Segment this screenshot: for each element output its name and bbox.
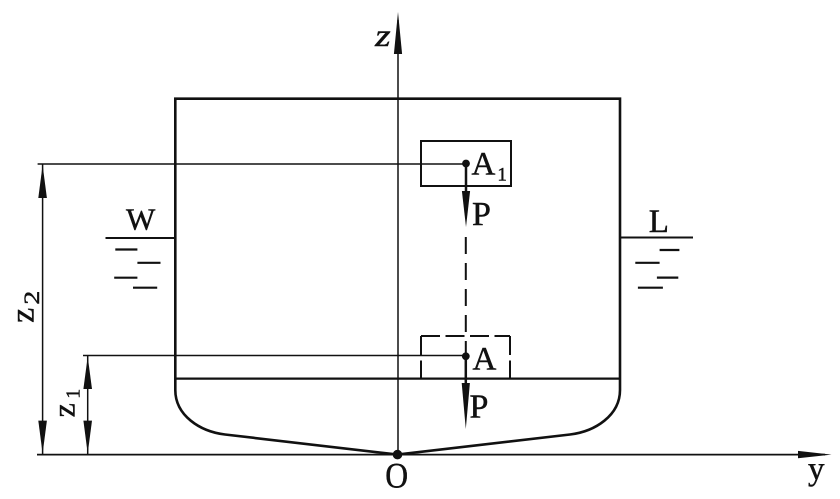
svg-text:z2: z2 bbox=[4, 291, 44, 323]
svg-text:W: W bbox=[126, 202, 156, 237]
waterline W bbox=[106, 237, 177, 239]
dimension z2 line bbox=[42, 164, 44, 455]
svg-text:O: O bbox=[385, 457, 408, 496]
svg-text:A1: A1 bbox=[472, 146, 507, 185]
z1 arrow up bbox=[83, 357, 92, 390]
svg-text:z: z bbox=[374, 17, 391, 53]
weight box A1 bbox=[421, 141, 511, 186]
z1 arrow down bbox=[83, 421, 92, 454]
y axis arrowhead bbox=[798, 451, 832, 458]
z2 arrow up bbox=[38, 165, 47, 198]
z axis arrowhead bbox=[394, 12, 402, 54]
extension line A1 level bbox=[38, 163, 466, 165]
inner bottom line bbox=[175, 378, 620, 380]
svg-text:y: y bbox=[808, 452, 825, 488]
W water marks bbox=[115, 248, 137, 250]
svg-text:P: P bbox=[470, 389, 489, 426]
dimension z1 line bbox=[87, 356, 89, 455]
svg-text:P: P bbox=[472, 196, 491, 233]
node O bbox=[393, 450, 403, 460]
node A bbox=[462, 352, 470, 360]
node A1 bbox=[462, 160, 470, 168]
force P lower head bbox=[462, 383, 470, 429]
dashed trajectory line bbox=[465, 237, 467, 356]
hull outline bbox=[175, 99, 620, 455]
svg-text:z1: z1 bbox=[45, 389, 84, 418]
waterline L bbox=[619, 237, 693, 239]
y axis (baseline) bbox=[37, 454, 825, 456]
force P lower shaft bbox=[465, 356, 468, 392]
svg-text:L: L bbox=[649, 204, 669, 240]
z2 arrow down bbox=[38, 421, 47, 454]
extension line A level bbox=[83, 355, 466, 357]
force P upper shaft bbox=[465, 164, 468, 201]
dashed box A bbox=[421, 335, 510, 337]
z axis bbox=[397, 20, 399, 455]
L water marks bbox=[660, 249, 680, 251]
svg-text:A: A bbox=[473, 341, 497, 377]
force P upper head bbox=[462, 191, 470, 227]
